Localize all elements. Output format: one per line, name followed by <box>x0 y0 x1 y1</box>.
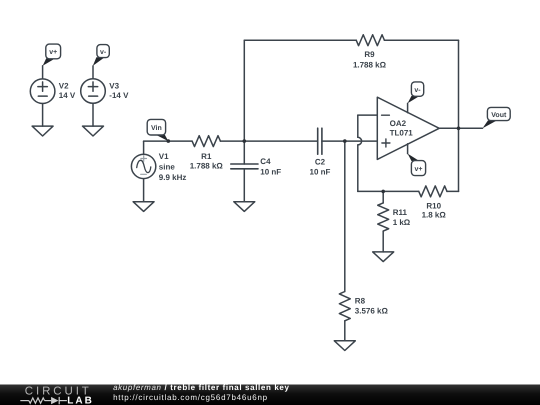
svg-text:V2: V2 <box>59 81 69 90</box>
svg-text:v+: v+ <box>415 166 423 173</box>
svg-text:9.9 kHz: 9.9 kHz <box>159 173 187 182</box>
svg-text:R11: R11 <box>393 208 408 217</box>
svg-text:LAB: LAB <box>67 396 94 405</box>
svg-text:V3: V3 <box>109 81 119 90</box>
svg-text:Vin: Vin <box>151 124 162 132</box>
svg-text:R1: R1 <box>201 152 212 161</box>
svg-text:v-: v- <box>100 49 107 56</box>
svg-text:R8: R8 <box>355 296 366 305</box>
svg-text:sine: sine <box>159 163 176 172</box>
svg-text:akupferman / treble filter fin: akupferman / treble filter final sallen … <box>113 383 290 392</box>
svg-text:v-: v- <box>414 87 421 94</box>
svg-text:C4: C4 <box>260 157 271 166</box>
svg-text:TL071: TL071 <box>390 129 414 138</box>
svg-text:C2: C2 <box>315 158 326 167</box>
svg-text:1.8 kΩ: 1.8 kΩ <box>422 210 447 219</box>
svg-text:Vout: Vout <box>491 112 507 119</box>
svg-text:3.576 kΩ: 3.576 kΩ <box>355 307 389 316</box>
svg-text:OA2: OA2 <box>390 119 407 128</box>
svg-text:1.788 kΩ: 1.788 kΩ <box>353 60 387 69</box>
svg-text:R9: R9 <box>364 50 375 59</box>
svg-text:V1: V1 <box>159 152 169 161</box>
svg-text:-14 V: -14 V <box>109 91 129 100</box>
svg-text:v+: v+ <box>49 49 57 56</box>
svg-text:http://circuitlab.com/cg56d7b4: http://circuitlab.com/cg56d7b46u6np <box>113 393 268 402</box>
svg-text:1.788 kΩ: 1.788 kΩ <box>190 161 224 170</box>
svg-text:10 nF: 10 nF <box>260 168 281 177</box>
svg-text:1 kΩ: 1 kΩ <box>393 218 411 227</box>
svg-text:10 nF: 10 nF <box>310 168 331 177</box>
svg-text:R10: R10 <box>426 202 441 211</box>
svg-text:14 V: 14 V <box>59 91 76 100</box>
